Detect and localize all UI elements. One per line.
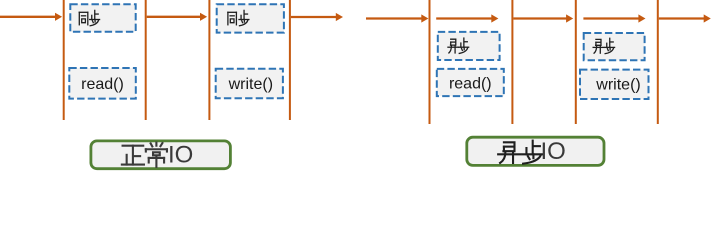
lifeline R1	[429, 0, 431, 124]
dashed box read() #1	[69, 68, 136, 99]
arrow A7 floating above 异步 box #2	[583, 14, 645, 22]
text 正常IO	[122, 142, 193, 169]
lifeline L3	[208, 0, 210, 120]
arrow A1 into lifeline L1	[0, 13, 62, 21]
arrow A8 out of lifeline R4	[659, 14, 711, 22]
svg-text:write(): write()	[595, 77, 640, 94]
green label box 正常IO	[91, 141, 231, 169]
green label box 异步IO	[467, 137, 604, 165]
dashed box 同步 #2	[217, 4, 284, 32]
lifeline L1	[63, 0, 65, 120]
arrow A5 floating above 异步 box #1	[436, 14, 498, 22]
svg-text:IO: IO	[541, 138, 566, 165]
dashed box write() #1	[216, 69, 283, 99]
svg-text:read(): read()	[449, 75, 492, 92]
lifeline L4	[289, 0, 291, 120]
svg-text:write(): write()	[228, 76, 273, 93]
text 异步IO	[498, 138, 566, 165]
dashed box 异步 #1	[438, 32, 500, 60]
arrow A3 out of lifeline L4	[291, 13, 343, 21]
arrow A6 from R2 to R3	[513, 14, 573, 22]
dashed box 异步 #2	[584, 33, 645, 60]
dashed box 同步 #1	[70, 4, 135, 32]
lifeline R2	[511, 0, 513, 124]
lifeline R4	[657, 0, 659, 124]
text 异步 #1	[448, 38, 469, 53]
lifeline L2	[145, 0, 147, 120]
dashed box write() #2	[580, 70, 649, 99]
lifeline R3	[575, 0, 577, 124]
text 同步 #1	[79, 10, 99, 25]
text 异步 #2	[593, 38, 614, 53]
svg-text:read(): read()	[81, 76, 124, 93]
dashed box read() #2	[437, 69, 504, 96]
arrow A4 into lifeline R1	[366, 14, 428, 22]
text 同步 #2	[228, 10, 249, 25]
svg-text:IO: IO	[168, 142, 193, 169]
arrow A2 from L2 to L3	[147, 13, 207, 21]
